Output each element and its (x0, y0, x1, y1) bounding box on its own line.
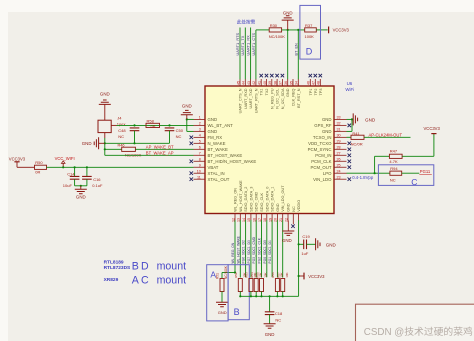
svg-text:R52: R52 (234, 272, 238, 278)
svg-text:R46: R46 (118, 143, 125, 147)
svg-text:0R: 0R (151, 125, 156, 129)
junction (282, 295, 284, 297)
svg-text:43: 43 (247, 81, 251, 85)
connector J4 1pex (98, 116, 125, 133)
pin 28 PCM_SYNC (308, 145, 351, 152)
svg-text:WiFi: WiFi (345, 87, 354, 92)
label BT_EN (294, 43, 298, 55)
svg-text:GND: GND (365, 117, 376, 122)
svg-text:TP2: TP2 (314, 89, 318, 96)
pin 5 N_WAKE (190, 139, 226, 146)
ground right of pin 33 (353, 113, 376, 125)
wire antenna ground rail (105, 142, 170, 144)
svg-text:A: A (132, 275, 140, 287)
svg-text:WL_REG_ON: WL_REG_ON (231, 242, 235, 263)
svg-text:R51: R51 (216, 273, 220, 279)
svg-text:25: 25 (337, 163, 341, 167)
svg-text:UART1_TX: UART1_TX (240, 35, 245, 55)
svg-text:VDDIO: VDDIO (297, 200, 301, 212)
power VCC3V3 top right (329, 27, 350, 34)
svg-text:C48: C48 (118, 128, 126, 133)
svg-text:UART_TXD: UART_TXD (249, 88, 253, 108)
svg-text:R94: R94 (390, 166, 398, 171)
junction (133, 124, 135, 126)
svg-text:UART1_CTS: UART1_CTS (251, 32, 256, 55)
wire BT_EN riser (297, 30, 299, 79)
pin TP TP3 (317, 74, 323, 96)
svg-text:0.1uF: 0.1uF (92, 183, 103, 188)
option box A (207, 265, 228, 321)
resistor R46 (105, 143, 142, 157)
svg-text:9: 9 (199, 163, 201, 167)
pin 32 GPS_RF (314, 121, 351, 128)
svg-text:TCXO_IN: TCXO_IN (313, 135, 332, 140)
label AP_WAKE_BT (146, 145, 174, 150)
pin 2 WL_BT_ANT (194, 121, 234, 128)
pin 10 XTAL_IN (190, 169, 225, 176)
junction (287, 29, 289, 31)
junction (374, 172, 376, 174)
ground above J4 (99, 91, 111, 120)
resistor R50 (35, 160, 47, 175)
svg-text:GND: GND (208, 117, 218, 122)
svg-text:WL_HOST_WAKE: WL_HOST_WAKE (239, 180, 243, 212)
pin 38 N_I2C_SCL (273, 74, 279, 109)
svg-text:TP1: TP1 (309, 89, 313, 96)
capacitor C48 (118, 128, 139, 143)
svg-text:46: 46 (307, 81, 311, 85)
resistor R52 pull-up (234, 272, 246, 296)
pin 9 VBAT (194, 163, 219, 170)
svg-text:UART1_RTS: UART1_RTS (235, 33, 240, 56)
svg-text:UART_CTS_N: UART_CTS_N (239, 88, 243, 113)
resistor R51 option A pulldown (216, 265, 228, 302)
svg-text:mount: mount (157, 260, 186, 272)
svg-text:R53: R53 (245, 272, 249, 278)
svg-text:BT_WAKE_AP: BT_WAKE_AP (146, 151, 174, 156)
svg-text:R58: R58 (147, 119, 155, 124)
pin 43 UART_TXD (247, 79, 253, 108)
svg-text:10: 10 (197, 169, 201, 173)
svg-text:VCC3V3: VCC3V3 (333, 28, 350, 33)
svg-text:D: D (141, 260, 149, 272)
junction (186, 118, 188, 120)
svg-text:SDIO_DATA_1: SDIO_DATA_1 (271, 187, 275, 212)
pin bottom SDIO_DATA_1 (268, 187, 274, 222)
svg-text:GND: GND (282, 238, 292, 243)
pin bottom SDIO_DATA_0 (263, 187, 269, 222)
svg-text:VIN_LDO: VIN_LDO (313, 177, 332, 182)
svg-text:B: B (234, 307, 240, 317)
svg-text:RTL8723DS: RTL8723DS (104, 265, 131, 271)
svg-text:7: 7 (199, 151, 201, 155)
resistor R41 (347, 131, 365, 147)
note B D mount (132, 260, 186, 272)
svg-text:31: 31 (337, 127, 341, 131)
junction (62, 166, 88, 168)
resistor R57 pull-up (277, 272, 289, 296)
pin 1 GND (194, 116, 218, 123)
pin 7 BT_HOST_WAKE (194, 151, 243, 158)
svg-text:C16: C16 (93, 177, 101, 182)
option box D (300, 5, 321, 59)
power VCC3V3 left (9, 156, 26, 167)
svg-text:PCM_OUT: PCM_OUT (310, 165, 331, 170)
svg-text:AP_WAKE_BT: AP_WAKE_BT (146, 145, 174, 150)
svg-text:10K: 10K (264, 272, 268, 277)
label UART1_RX (246, 35, 251, 56)
capacitor C18 (265, 296, 283, 324)
svg-text:27: 27 (337, 151, 341, 155)
label UART1_TX (240, 35, 245, 55)
wire VCC3V3 to R50 (17, 166, 35, 168)
svg-text:BT_HID/N_HOST_WAKE: BT_HID/N_HOST_WAKE (208, 159, 257, 164)
ground above R30 (282, 10, 294, 30)
pin bottom NC (292, 206, 296, 220)
wire LPO pin 24 (347, 172, 375, 174)
resistor R54 pull-up (250, 272, 262, 296)
svg-text:NC: NC (390, 178, 396, 183)
resistor R56 pull-up (271, 272, 283, 296)
svg-text:PCM_SYNC: PCM_SYNC (308, 147, 332, 152)
svg-text:36: 36 (284, 81, 288, 85)
capacitor C14 (63, 167, 80, 188)
svg-text:NC: NC (292, 206, 296, 212)
wire sdio net (276, 220, 278, 277)
svg-text:mount: mount (157, 275, 186, 287)
svg-text:GND: GND (208, 129, 218, 134)
pin 25 PCM_OUT (310, 163, 351, 170)
wire sdio net (261, 220, 263, 277)
title block corner (356, 304, 474, 341)
svg-text:GND: GND (100, 91, 110, 96)
svg-text:BT_WAKE: BT_WAKE (208, 147, 229, 152)
note A C mount (132, 275, 186, 287)
junction (269, 295, 271, 297)
svg-text:22: 22 (284, 218, 288, 222)
svg-text:R56: R56 (271, 272, 275, 278)
label PG1_SDC1_D1 (268, 240, 272, 263)
svg-text:R37: R37 (305, 23, 313, 28)
resistor R55 pull-up (255, 272, 267, 296)
pin 11 XTAL_OUT (190, 175, 230, 182)
junction (168, 124, 170, 126)
svg-text:PG0_SDC1_D0: PG0_SDC1_D0 (263, 240, 267, 263)
wire cap ground link (75, 185, 87, 187)
svg-text:R54: R54 (250, 272, 254, 278)
wire J4 to WL_BT_ANT (111, 124, 193, 126)
pin 6 BT_WAKE (194, 145, 229, 152)
svg-text:FM_RX: FM_RX (208, 135, 223, 140)
svg-text:44: 44 (242, 81, 246, 85)
svg-text:NC: NC (176, 134, 182, 139)
svg-text:B: B (132, 260, 139, 272)
svg-text:D: D (306, 47, 313, 57)
svg-text:C: C (141, 275, 149, 287)
svg-text:PG1_SDC1_D1: PG1_SDC1_D1 (268, 240, 272, 263)
svg-text:5: 5 (199, 139, 201, 143)
svg-text:SDIO_DATA_3: SDIO_DATA_3 (249, 187, 253, 212)
svg-text:33: 33 (337, 116, 341, 120)
svg-text:NC/0R: NC/0R (351, 142, 363, 147)
svg-text:GND: GND (322, 117, 332, 122)
svg-text:C50: C50 (176, 128, 184, 133)
note level annotation (352, 175, 374, 180)
svg-text:N_WAKE: N_WAKE (208, 141, 226, 146)
pin 23 VIN_LDO (313, 175, 351, 182)
svg-text:NC: NC (118, 134, 124, 139)
resistor R30 (269, 23, 286, 39)
svg-text:VDD_TCXO: VDD_TCXO (308, 141, 332, 146)
svg-text:39: 39 (268, 81, 272, 85)
pin 42 UART_RTS_N (252, 79, 258, 113)
svg-text:29: 29 (337, 139, 341, 143)
svg-text:2: 2 (199, 121, 201, 125)
wire VBAT rail (47, 166, 194, 168)
U6 reference designator (345, 81, 354, 92)
svg-text:VCC3V3: VCC3V3 (424, 126, 441, 131)
svg-text:SDIO_CMD: SDIO_CMD (255, 192, 259, 212)
wire R30 to R37 (282, 29, 305, 31)
pin 31 GND (322, 127, 347, 134)
svg-text:GND: GND (326, 242, 337, 247)
pin 45 UART_CTS_N (236, 79, 242, 113)
pin 40 TX2 (263, 74, 269, 96)
svg-text:C18: C18 (275, 311, 283, 316)
svg-text:38: 38 (273, 81, 277, 85)
svg-text:GND: GND (265, 332, 275, 337)
pin bottom SDIO_DATA_3 (247, 187, 253, 222)
note RTL8723DS (104, 265, 131, 271)
resistor R58 (146, 119, 160, 129)
capacitor C50 (165, 128, 184, 143)
label PG0_SDC1_D0 (263, 240, 267, 263)
wire R94 to PG11 (402, 172, 420, 174)
svg-text:PG2_SDC1_CLK: PG2_SDC1_CLK (258, 237, 262, 263)
wire WL_REG_ON to option A resistor (222, 273, 235, 279)
svg-text:TP3: TP3 (319, 89, 323, 96)
ground below pin 21 (282, 221, 294, 243)
ground in option box A (216, 302, 228, 315)
svg-text:48: 48 (317, 81, 321, 85)
wire GND pins 1-3 (187, 119, 194, 131)
svg-text:C19: C19 (302, 234, 310, 239)
svg-text:SDIO_DATA_0: SDIO_DATA_0 (265, 187, 269, 212)
svg-text:NC: NC (275, 317, 281, 322)
power VCC3V3 right (424, 126, 441, 134)
pin 30 TCXO_IN (313, 133, 347, 140)
svg-text:8: 8 (199, 157, 201, 161)
wire sdio net (239, 220, 241, 277)
resistor R53 pull-up (245, 272, 257, 296)
resistor R94 (375, 166, 402, 182)
power flag VCC_WIFI (55, 156, 75, 167)
junction (260, 295, 262, 297)
svg-text:R55: R55 (255, 272, 259, 278)
junction (104, 142, 136, 144)
svg-text:1uF: 1uF (301, 251, 308, 256)
wire sdio net (271, 220, 273, 277)
no-connect bottom pin (291, 221, 294, 228)
resistor R37 (305, 23, 317, 39)
capacitor C19 (299, 234, 316, 256)
ground below C14 C16 (75, 186, 87, 200)
junction (297, 29, 299, 31)
wire sdio net (234, 220, 236, 272)
pin 29 VDD_TCXO (308, 139, 351, 146)
pin bottom SDIO_CMD (253, 192, 259, 222)
junction (239, 295, 241, 297)
svg-text:R57: R57 (277, 272, 281, 278)
svg-text:GND: GND (283, 10, 293, 15)
svg-text:GND: GND (287, 203, 291, 212)
pin 34 BT_RST_N (295, 79, 301, 108)
svg-text:30: 30 (337, 133, 341, 137)
pin 3 GND (194, 127, 218, 134)
svg-text:VCC_WIFI: VCC_WIFI (55, 156, 75, 161)
svg-text:GPS_RF: GPS_RF (314, 123, 332, 128)
junction (234, 271, 236, 273)
junction (351, 118, 353, 120)
svg-text:C14: C14 (67, 171, 75, 176)
wire UART1_CTS to R30 (256, 30, 269, 79)
svg-text:GND: GND (76, 195, 86, 200)
pin 35 CLK_REQ (289, 79, 295, 106)
label PG11 (419, 169, 432, 175)
wire R37 to VCC3V3 (316, 29, 327, 31)
wire pin33 to ground (347, 119, 354, 131)
svg-text:CSDN @技术过硬的菜鸡: CSDN @技术过硬的菜鸡 (364, 325, 473, 338)
wire sdio net (250, 220, 252, 277)
pin bottom SDIO_CLK (258, 193, 264, 222)
label WL_REG_ON (231, 242, 235, 263)
svg-text:PCM_CLK: PCM_CLK (311, 159, 331, 164)
label AP-CLK24M-OUT (369, 133, 403, 138)
power VCC3V3 bottom (299, 273, 326, 280)
svg-text:UART_RXD: UART_RXD (244, 88, 248, 109)
wire TCXO to label (364, 136, 411, 138)
wire sdio net (255, 220, 257, 277)
svg-text:PG6_SDC1_D2: PG6_SDC1_D2 (242, 240, 246, 263)
junction (298, 275, 300, 277)
junction (104, 148, 106, 150)
svg-text:28: 28 (337, 145, 341, 149)
svg-text:UART_RTS_N: UART_RTS_N (254, 88, 258, 113)
svg-text:N_REG_PU: N_REG_PU (270, 88, 274, 109)
svg-text:AP-CLK24M-OUT: AP-CLK24M-OUT (369, 133, 403, 138)
svg-text:6: 6 (199, 145, 201, 149)
IC U6 WiFi/BT module body (205, 86, 334, 214)
svg-text:41: 41 (258, 81, 262, 85)
capacitor C16 (82, 167, 103, 188)
pin 37 N_I2C_SDA (279, 74, 285, 109)
pin bottom WL_HOST_WAKE (237, 180, 243, 222)
wire pull-up common rail (240, 295, 298, 297)
svg-text:100K: 100K (305, 34, 315, 39)
pin bottom WL_REG_ON (231, 188, 237, 222)
label UART1_RTS (235, 33, 240, 56)
svg-text:NC/100K: NC/100K (224, 265, 228, 279)
svg-text:LPO: LPO (323, 171, 332, 176)
svg-text:UART1_RX: UART1_RX (246, 35, 251, 56)
note chinese annotation (237, 19, 256, 26)
pin 8 BT_HID/N_HOST_WAKE (190, 157, 257, 164)
label PG2_SDC1_CLK (258, 237, 262, 263)
wire UART1_RX (250, 28, 252, 80)
junction (255, 295, 257, 297)
svg-text:32: 32 (337, 121, 341, 125)
ground above pin 1 (181, 104, 193, 120)
ground right of C19 (316, 238, 337, 250)
svg-text:TX1: TX1 (260, 89, 264, 96)
svg-text:BT_EN: BT_EN (294, 43, 298, 55)
svg-text:VIN_LDO_OUT: VIN_LDO_OUT (281, 185, 285, 212)
label PG3_SDC1_CMD (252, 236, 256, 263)
pin bottom VDDIO (297, 200, 301, 221)
wire R47 to VCC3V3 (402, 134, 434, 157)
note XR829 (104, 277, 119, 283)
pin 44 UART_RXD (242, 79, 248, 109)
svg-text:35: 35 (289, 81, 293, 85)
pin bottom SDIO_DATA_2 (242, 187, 248, 222)
svg-text:GND: GND (322, 129, 332, 134)
pin 36 GND (284, 79, 290, 97)
svg-text:BT_HOST_WAKE: BT_HOST_WAKE (208, 153, 243, 158)
svg-text:NC/100K: NC/100K (269, 34, 286, 39)
wire J4 shield down (104, 133, 106, 156)
svg-text:26: 26 (337, 157, 341, 161)
junction (250, 295, 252, 297)
svg-text:40: 40 (263, 81, 267, 85)
svg-text:10uF: 10uF (63, 183, 73, 188)
svg-text:CLK_REQ: CLK_REQ (292, 88, 296, 106)
svg-text:N_I2C_SCL: N_I2C_SCL (276, 89, 280, 109)
svg-text:A: A (210, 269, 216, 279)
svg-text:PG3_SDC1_CMD: PG3_SDC1_CMD (252, 236, 256, 263)
wire AP_WAKE_BT (135, 148, 193, 150)
svg-text:R47: R47 (390, 149, 398, 154)
wire VDDIO riser (298, 220, 300, 296)
svg-text:4.7K: 4.7K (389, 159, 398, 164)
svg-text:PG7_SDC1_D3: PG7_SDC1_D3 (247, 240, 251, 263)
watermark CSDN (364, 325, 473, 338)
pin 39 N_REG_PU (268, 74, 274, 109)
svg-text:42: 42 (252, 81, 256, 85)
svg-text:24: 24 (337, 169, 341, 173)
wire pull-up riser to pin 36 (287, 30, 289, 79)
option box B (228, 265, 249, 320)
pin bottom VIN_LDO_OUT (279, 185, 285, 222)
junction (80, 185, 82, 187)
svg-text:VCC3V3: VCC3V3 (308, 274, 325, 279)
pin bottom GND (284, 203, 290, 222)
label PG6_SDC1_D2 (242, 240, 246, 263)
wire sdio net (282, 220, 284, 277)
svg-text:45: 45 (236, 81, 240, 85)
svg-text:BT_RST_N: BT_RST_N (297, 88, 301, 108)
label PG7_SDC1_D3 (247, 240, 251, 263)
svg-text:VBAT: VBAT (208, 165, 219, 170)
label UART1_CTS (251, 32, 256, 55)
wire UART1_TX (244, 28, 246, 80)
svg-text:VCC3V3: VCC3V3 (9, 156, 26, 161)
pin 27 PCM_IN (315, 151, 351, 158)
svg-text:4: 4 (199, 133, 201, 137)
junction (276, 295, 278, 297)
svg-text:XR829: XR829 (104, 277, 119, 283)
svg-text:47: 47 (312, 81, 316, 85)
pin 24 LPO (323, 169, 347, 176)
